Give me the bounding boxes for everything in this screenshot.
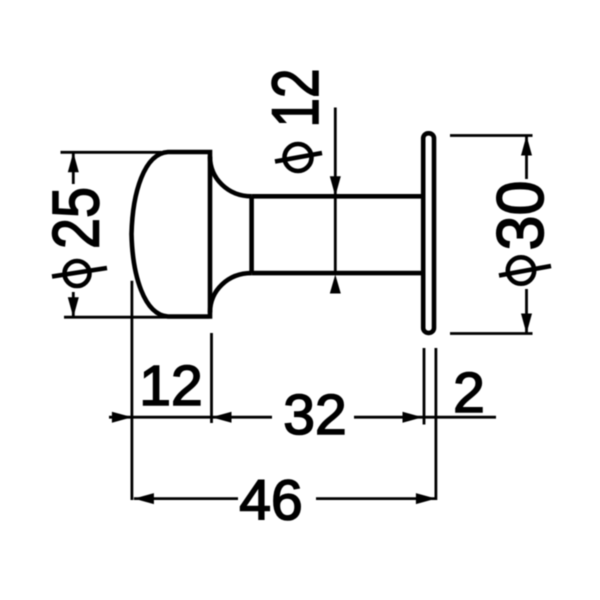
svg-text:25: 25 [39, 187, 113, 249]
svg-text:46: 46 [239, 468, 302, 532]
svg-text:30: 30 [483, 181, 557, 251]
svg-text:12: 12 [258, 69, 332, 128]
svg-text:32: 32 [283, 383, 346, 447]
svg-text:12: 12 [139, 354, 202, 418]
svg-text:2: 2 [453, 361, 485, 425]
